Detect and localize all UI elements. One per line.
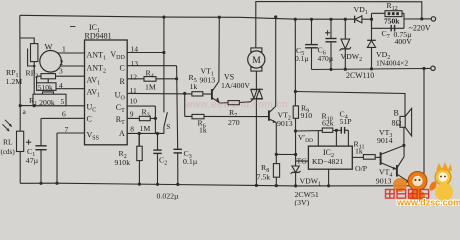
svg-text:RL: RL — [3, 137, 13, 146]
svg-text:KD−4821: KD−4821 — [312, 157, 343, 166]
svg-text:400V: 400V — [395, 37, 413, 46]
svg-text:8Ω: 8Ω — [392, 118, 402, 127]
svg-text:4: 4 — [59, 81, 63, 90]
svg-text:C: C — [119, 63, 124, 72]
svg-text:0.1µ: 0.1µ — [183, 157, 198, 166]
svg-text:www.dzsc.com: www.dzsc.com — [396, 197, 460, 206]
svg-text:1k: 1k — [355, 146, 363, 155]
svg-text:9: 9 — [130, 109, 134, 118]
svg-text:2CW110: 2CW110 — [346, 71, 374, 80]
svg-text:510k: 510k — [38, 83, 53, 92]
svg-text:0.022µ: 0.022µ — [157, 191, 180, 200]
svg-text:RD9481: RD9481 — [85, 31, 112, 40]
svg-text:910: 910 — [301, 111, 313, 120]
svg-text:~220V: ~220V — [409, 23, 431, 32]
svg-text:1k: 1k — [199, 126, 207, 135]
svg-text:9013: 9013 — [200, 75, 216, 84]
svg-text:62k: 62k — [322, 118, 334, 127]
svg-text:0.1µ: 0.1µ — [295, 54, 309, 63]
svg-text:470µ: 470µ — [318, 54, 334, 63]
svg-text:7.5k: 7.5k — [257, 172, 271, 181]
svg-text:7: 7 — [65, 125, 69, 134]
svg-text:12: 12 — [130, 72, 138, 81]
svg-text:14: 14 — [131, 45, 139, 54]
svg-text:1M: 1M — [145, 82, 156, 91]
svg-text:8: 8 — [130, 125, 134, 134]
svg-text:1k: 1k — [190, 82, 198, 91]
svg-text:VS: VS — [224, 72, 234, 81]
svg-text:51P: 51P — [340, 117, 353, 126]
svg-text:B: B — [394, 108, 399, 117]
svg-text:M: M — [252, 56, 261, 66]
svg-text:9013: 9013 — [376, 176, 392, 185]
svg-text:5: 5 — [61, 97, 65, 106]
svg-text:13: 13 — [131, 59, 139, 68]
svg-text:C: C — [87, 114, 92, 123]
svg-text:(3V): (3V) — [295, 198, 310, 206]
svg-text:TG: TG — [297, 156, 308, 165]
svg-text:9014: 9014 — [377, 136, 393, 145]
svg-text:6: 6 — [62, 109, 66, 118]
svg-text:10: 10 — [130, 97, 138, 106]
svg-text:W: W — [45, 42, 53, 52]
svg-text:www.eeworld.com.cn: www.eeworld.com.cn — [184, 100, 288, 111]
svg-text:S: S — [166, 122, 170, 131]
svg-text:1.2M: 1.2M — [6, 77, 23, 86]
svg-text:11: 11 — [130, 86, 137, 95]
svg-text:O/P: O/P — [355, 164, 368, 173]
svg-text:47µ: 47µ — [26, 156, 39, 165]
svg-text:9013: 9013 — [277, 119, 293, 128]
svg-text:1: 1 — [62, 45, 66, 54]
svg-text:3: 3 — [59, 67, 63, 76]
svg-text:(cds): (cds) — [1, 148, 16, 156]
svg-text:910k: 910k — [115, 158, 131, 167]
svg-text:270: 270 — [228, 118, 240, 127]
svg-text:750k: 750k — [384, 17, 400, 26]
svg-text:1A/400V: 1A/400V — [221, 81, 250, 90]
svg-text:A: A — [119, 129, 125, 138]
svg-text:1N4004×2: 1N4004×2 — [376, 58, 408, 67]
svg-text:1M: 1M — [140, 124, 151, 133]
svg-text:R: R — [119, 77, 125, 86]
